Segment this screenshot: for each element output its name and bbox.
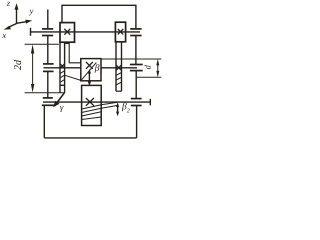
shaft 3 (lower horizontal shaft) (43, 101, 150, 103)
stem between bearing 2R and 3R (135, 71, 137, 99)
stem between bearing 2L and 3L (47, 71, 49, 98)
x axis (8, 24, 17, 28)
gear box 1 on shaft 1 (60, 23, 75, 43)
x mark middle gear (86, 62, 93, 69)
extended tooth lines to beta2 vertex (101, 102, 118, 108)
bearing 1L plates (42, 29, 53, 36)
bearing 1R plates (130, 29, 141, 36)
bottom box hatch lines (82, 105, 102, 116)
right column bottom edge (116, 90, 122, 92)
coordinate axes icon (4, 3, 33, 29)
tooth line diagonal in middle box (81, 63, 97, 81)
x mark gear 1 (64, 29, 70, 35)
middle gear box on shaft 2 (81, 59, 101, 81)
left frame stem down (43, 105, 45, 138)
z axis (16, 9, 18, 24)
gear box 2 on shaft 1 (115, 22, 125, 42)
y axis (17, 21, 29, 23)
dimension d line with arrows (156, 59, 159, 77)
stem between bearing 1R and 2R (135, 36, 137, 65)
extended tooth line to middle box corner (65, 75, 81, 80)
svg-text:γ: γ (60, 102, 64, 112)
dimension 2d line with arrows (31, 44, 34, 92)
axis double arrow beta1 (88, 69, 91, 86)
bearing 1L upper stem (47, 10, 49, 29)
gamma arrow (57, 93, 65, 103)
shaft 2 (middle horizontal shaft) (44, 67, 81, 69)
x mark left column gear (60, 64, 65, 69)
left gear column legs (59, 42, 61, 93)
svg-text:z: z (6, 0, 11, 8)
x mark right column gear (116, 65, 121, 70)
dimension d extension line bottom (136, 76, 161, 78)
frame line between middle box and right column (101, 58, 161, 60)
svg-text:2: 2 (127, 108, 130, 114)
bearing 3R plates (131, 99, 142, 106)
bottom box hatch bottom edge (82, 117, 102, 120)
left column hatch bottom edge (60, 84, 65, 86)
shaft 1 left end tick (30, 28, 32, 36)
svg-text:x: x (1, 30, 6, 40)
x mark gear 2 (118, 29, 123, 34)
shaft 1 (upper horizontal shaft) (31, 31, 141, 33)
top frame line (62, 5, 136, 29)
shaft 2 right segment (101, 67, 137, 69)
stem between bearing 1L and 2L (47, 36, 49, 64)
bearing 3L plates (42, 98, 56, 105)
svg-text:1: 1 (100, 69, 103, 75)
left column hatch lines (60, 71, 65, 83)
svg-text:y: y (29, 6, 34, 16)
right frame stem down (136, 106, 138, 138)
right gear column legs (115, 42, 117, 91)
bearing 2L plates (43, 64, 54, 72)
dimension 2d extension line bottom (25, 92, 65, 94)
housing step connector (65, 44, 81, 63)
bottom gear box on shaft 3 (82, 85, 102, 125)
bottom frame line (44, 137, 136, 139)
svg-text:d: d (142, 64, 152, 69)
right column hatch lines (116, 73, 122, 86)
dimension 2d extension line top (25, 43, 59, 45)
x mark bottom gear (86, 98, 94, 106)
shaft 3 right end tick (149, 99, 151, 105)
bearing 2R plates (130, 65, 143, 71)
svg-text:2d: 2d (13, 59, 24, 70)
axis double arrow beta2 (116, 102, 119, 116)
